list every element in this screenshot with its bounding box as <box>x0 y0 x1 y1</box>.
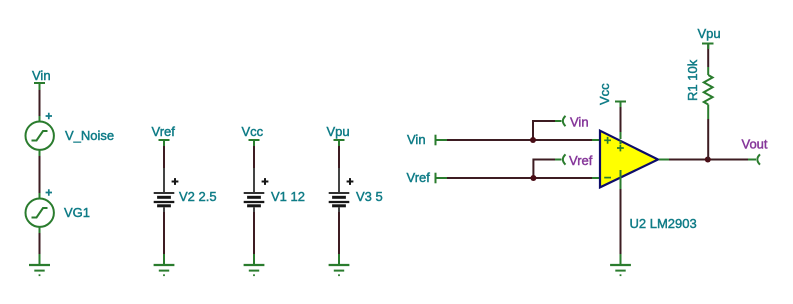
svg-text:Vin: Vin <box>407 132 426 147</box>
svg-text:Vin: Vin <box>570 115 589 130</box>
svg-text:U2 LM2903: U2 LM2903 <box>630 216 697 231</box>
svg-text:V3 5: V3 5 <box>356 189 383 204</box>
svg-text:Vpu: Vpu <box>327 124 350 139</box>
svg-text:V_Noise: V_Noise <box>65 128 114 143</box>
svg-text:Vref: Vref <box>569 153 593 168</box>
svg-text:Vout: Vout <box>742 137 768 152</box>
svg-text:Vref: Vref <box>407 170 431 185</box>
svg-text:V1 12: V1 12 <box>271 189 305 204</box>
svg-text:Vcc: Vcc <box>597 83 612 105</box>
svg-text:R1 10k: R1 10k <box>685 59 700 101</box>
svg-text:Vcc: Vcc <box>242 124 264 139</box>
svg-text:Vref: Vref <box>152 124 176 139</box>
svg-text:Vin: Vin <box>32 68 51 83</box>
svg-text:Vpu: Vpu <box>698 26 721 41</box>
svg-text:V2 2.5: V2 2.5 <box>179 189 217 204</box>
svg-text:VG1: VG1 <box>64 205 90 220</box>
